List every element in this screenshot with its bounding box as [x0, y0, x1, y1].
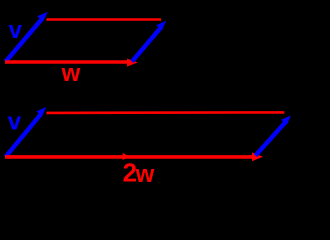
- vector w (top, red horizontal arrow): [5, 59, 138, 67]
- translated copy of 2w (bottom figure thin red line): [47, 111, 285, 114]
- svg-text:v: v: [9, 17, 23, 44]
- vector 2w (bottom, red horizontal arrow): [5, 152, 263, 161]
- vector v (top-left, blue arrow): [6, 12, 48, 62]
- svg-text:w: w: [135, 161, 155, 184]
- translated copy of w (top thin red line): [47, 18, 162, 21]
- translated copy of v (top-right blue arrow): [132, 21, 166, 62]
- translated copy of v (bottom-right blue arrow): [256, 116, 292, 156]
- svg-text:v: v: [8, 109, 22, 136]
- svg-text:w: w: [61, 60, 81, 87]
- midpoint arrowhead on 2w: [123, 153, 130, 160]
- vector v (bottom-left, blue arrow): [6, 107, 47, 157]
